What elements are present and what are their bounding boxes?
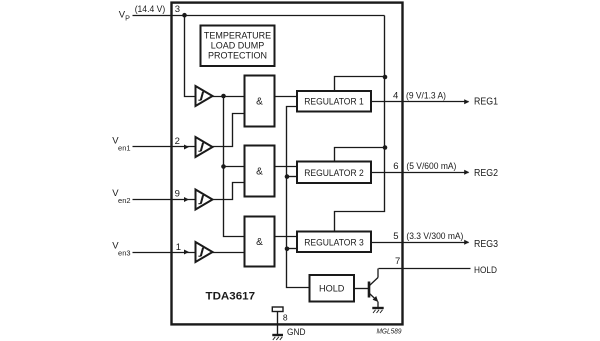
wire REG2 supply feed <box>335 148 385 162</box>
node sense-REG2 junction <box>285 174 290 179</box>
svg-text:5: 5 <box>393 231 398 242</box>
label GND <box>287 327 306 338</box>
wire AND3 output to REGULATOR 3 <box>275 236 297 238</box>
label (9 V/1.3 A) <box>406 91 446 101</box>
wire Ven2 lead pin 9 <box>133 199 196 201</box>
wire buffer B2 output step to AND1 <box>213 114 245 147</box>
regulator REGULATOR 1 <box>297 91 371 112</box>
wire pin 8 to ground <box>277 312 279 335</box>
svg-text:(9 V/1.3 A): (9 V/1.3 A) <box>406 91 446 101</box>
label (5 V/600 mA) <box>406 161 456 171</box>
ground (transistor emitter) <box>372 308 383 313</box>
wire REG1 output pin 4 <box>371 101 469 103</box>
HOLD block <box>310 275 355 302</box>
regulator REGULATOR 3 <box>297 232 371 253</box>
temperature load dump protection block <box>201 26 275 67</box>
arrow REG2 output <box>464 170 469 175</box>
wire collector to HOLD pin 7 <box>379 268 471 270</box>
AND gate 3 <box>245 217 275 267</box>
pin 5 <box>393 231 398 242</box>
svg-text:3: 3 <box>175 4 180 15</box>
svg-text:(3.3 V/300 mA): (3.3 V/300 mA) <box>406 231 463 241</box>
wire sense branch to REG2 <box>287 176 297 178</box>
svg-text:9: 9 <box>175 189 180 200</box>
svg-text:(5 V/600 mA): (5 V/600 mA) <box>406 161 456 171</box>
svg-text:2: 2 <box>175 136 180 147</box>
svg-text:7: 7 <box>395 256 400 267</box>
arrow REG3 output <box>464 240 469 245</box>
svg-text:4: 4 <box>393 90 398 101</box>
svg-text:1: 1 <box>176 242 181 253</box>
wire AND1 output to REGULATOR 1 <box>275 96 297 98</box>
pin 6 <box>393 161 398 172</box>
pin 2 <box>175 136 180 147</box>
svg-text:REGULATOR 2: REGULATOR 2 <box>304 168 364 179</box>
wire buffer B1 output to AND1 <box>213 96 245 98</box>
svg-text:6: 6 <box>393 161 398 172</box>
transistor Q1 <box>369 269 378 308</box>
schmitt buffer B2 <box>196 137 213 157</box>
label REG1 <box>474 97 498 108</box>
wire supply rail vertical to REG3 feed <box>335 16 385 232</box>
pin 8 <box>283 313 288 323</box>
wire sense line REG1 to HOLD <box>287 107 310 288</box>
wire buffer B3 output step to AND2 <box>213 183 245 200</box>
label REG3 <box>474 239 498 250</box>
svg-text:HOLD: HOLD <box>319 283 345 294</box>
arrow into B3 (pin 9) <box>184 197 189 202</box>
svg-text:&: & <box>256 237 263 248</box>
svg-text:REGULATOR 1: REGULATOR 1 <box>304 97 364 108</box>
wire AND2 output to REGULATOR 2 <box>275 166 297 168</box>
wire REG1 supply feed <box>335 77 385 91</box>
AND gate 1 <box>245 76 275 127</box>
wire REG2 output pin 6 <box>371 172 469 174</box>
AND gate 2 <box>245 146 275 197</box>
pin 4 <box>393 90 398 101</box>
wire drop line branch to AND2 input <box>224 166 245 168</box>
label Ven2 <box>112 188 130 205</box>
svg-text:MGL589: MGL589 <box>377 326 403 335</box>
svg-text:REG1: REG1 <box>474 97 498 108</box>
IC outer box <box>172 3 403 325</box>
label Ven1 <box>112 135 130 152</box>
ground GND <box>272 335 283 340</box>
svg-text:REGULATOR 3: REGULATOR 3 <box>304 237 364 248</box>
wire REG3 output pin 5 <box>371 242 469 244</box>
label (14.4 V) <box>135 4 166 15</box>
svg-text:REG2: REG2 <box>474 168 498 179</box>
node rail-REG1 junction <box>383 75 388 80</box>
node rail-REG2 junction <box>383 145 388 150</box>
pin 7 <box>395 256 400 267</box>
node Vp junction <box>182 13 187 18</box>
wire HOLD output to transistor base <box>354 288 369 290</box>
label TDA3617 <box>206 290 256 302</box>
svg-text:&: & <box>256 97 263 108</box>
label MGL589 <box>377 326 403 335</box>
wire Vp drop to buffer B1 input <box>185 16 196 97</box>
wire Ven1 lead pin 2 <box>133 146 196 148</box>
arrow REG1 output <box>464 99 469 104</box>
schmitt buffer B4 <box>196 242 213 262</box>
schmitt buffer B1 <box>196 86 213 106</box>
pin 3 <box>175 4 180 15</box>
svg-text:REG3: REG3 <box>474 239 498 250</box>
svg-text:PROTECTION: PROTECTION <box>208 51 267 61</box>
arrow into B2 (pin 2) <box>184 145 189 150</box>
wire Vp lead and top rail <box>133 15 385 17</box>
label HOLD <box>474 265 497 275</box>
svg-text:&: & <box>256 167 263 178</box>
node B1 output junction <box>221 94 226 99</box>
label Ven3 <box>112 240 130 257</box>
wire sense branch to REG3 <box>287 248 297 250</box>
label (3.3 V/300 mA) <box>406 231 463 241</box>
pin 1 <box>176 242 181 253</box>
label Vp <box>119 9 130 22</box>
svg-text:HOLD: HOLD <box>474 265 497 275</box>
schmitt buffer B3 <box>196 190 213 210</box>
wire B1 drop line to AND2 and AND3 <box>224 97 245 237</box>
svg-text:GND: GND <box>287 327 306 338</box>
arrow into B4 (pin 1) <box>184 250 189 255</box>
svg-text:LOAD DUMP: LOAD DUMP <box>211 41 265 51</box>
node drop-AND2 junction <box>221 164 226 169</box>
label REG2 <box>474 168 498 179</box>
wire buffer B4 output to AND3 <box>213 252 245 254</box>
svg-text:(14.4 V): (14.4 V) <box>135 4 166 15</box>
svg-text:8: 8 <box>283 313 288 323</box>
svg-text:TDA3617: TDA3617 <box>206 290 256 302</box>
regulator REGULATOR 2 <box>297 162 371 184</box>
svg-text:TEMPERATURE: TEMPERATURE <box>204 31 271 41</box>
pin 8 pad <box>272 307 283 312</box>
node sense-REG3 junction <box>285 247 290 252</box>
wire Ven3 lead pin 1 <box>133 252 196 254</box>
pin 9 <box>175 189 180 200</box>
